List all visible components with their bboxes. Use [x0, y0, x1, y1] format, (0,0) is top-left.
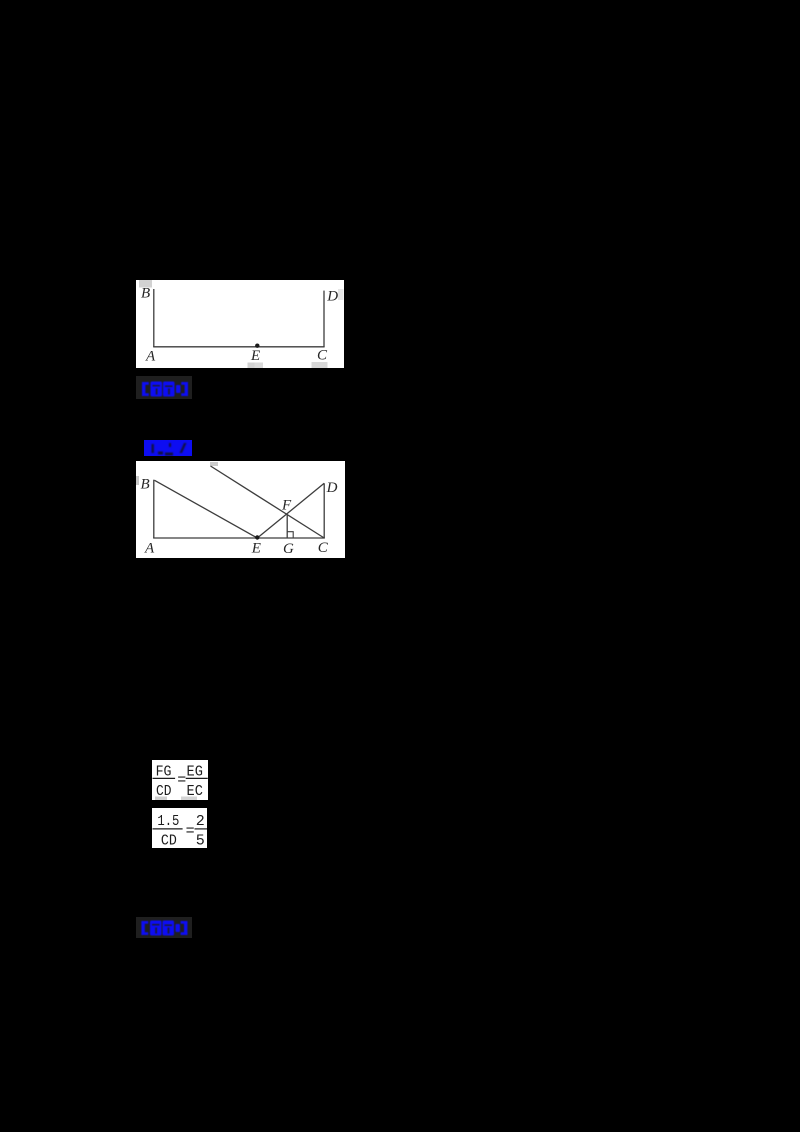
svg-text:A: A	[144, 541, 155, 557]
svg-text:B: B	[141, 286, 150, 302]
svg-text:EC: EC	[187, 783, 203, 800]
svg-text:E: E	[250, 348, 260, 364]
figure 2 box	[136, 461, 345, 558]
formula box 2: 1.5/CD = 2/5	[152, 808, 207, 848]
point E dot	[255, 535, 259, 539]
svg-text:CD: CD	[156, 783, 172, 800]
svg-text:=: =	[177, 772, 186, 789]
segment CD (right vertical)	[323, 483, 325, 538]
blue tag 3 (comment)	[136, 917, 192, 938]
svg-text:=: =	[186, 823, 195, 840]
fraction bar 2	[186, 777, 208, 779]
artifact strip bottom	[155, 797, 167, 801]
svg-text:EG: EG	[187, 763, 203, 780]
svg-text:5: 5	[196, 832, 205, 848]
svg-text:C: C	[318, 540, 329, 556]
svg-text:CD: CD	[161, 832, 177, 848]
fraction bar 1	[153, 777, 176, 779]
segment AC (bottom horizontal)	[153, 537, 325, 539]
blue tag 1 (analysis)	[136, 376, 192, 399]
fraction bar 1	[153, 828, 183, 830]
svg-text:E: E	[251, 541, 261, 557]
artifact patch top-left	[139, 280, 152, 288]
segment ED (diagonal)	[257, 483, 324, 538]
svg-text:2: 2	[196, 813, 205, 830]
svg-text:D: D	[326, 289, 338, 305]
svg-text:1.5: 1.5	[157, 813, 179, 830]
artifact patch top	[210, 462, 218, 466]
svg-text:B: B	[141, 477, 150, 493]
segment AB (left vertical)	[153, 480, 155, 539]
svg-text:F: F	[281, 498, 292, 514]
segment AB (left vertical)	[153, 289, 155, 347]
artifact patch below C	[312, 362, 328, 368]
artifact patch below E	[248, 363, 264, 369]
svg-text:D: D	[326, 480, 338, 496]
long diagonal through F to C	[211, 466, 325, 538]
figure 1 box	[136, 280, 344, 368]
svg-text:C: C	[317, 348, 328, 364]
fraction bar 2	[195, 828, 208, 830]
formula box 1: FG/CD = EG/EC	[152, 760, 208, 800]
point E dot	[255, 344, 259, 348]
segment CD (right vertical)	[323, 291, 325, 347]
svg-text:FG: FG	[156, 763, 172, 780]
segment FG (vertical)	[286, 515, 288, 538]
svg-text:A: A	[145, 348, 156, 364]
svg-text:G: G	[283, 541, 294, 557]
segment BE (diagonal)	[155, 480, 258, 538]
blue tag 2 (answer)	[144, 440, 192, 456]
right angle mark at G	[287, 532, 293, 538]
segment AC (bottom horizontal)	[153, 346, 324, 348]
artifact patch left edge	[136, 476, 139, 485]
